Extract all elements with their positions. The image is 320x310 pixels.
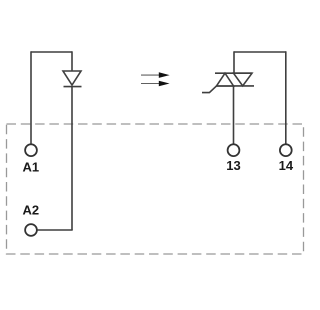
wire: input loop top horizontal <box>31 51 72 53</box>
svg-text:14: 14 <box>279 158 294 173</box>
wire: LED cathode lead down <box>71 87 73 230</box>
wire: triac upper lead <box>233 51 235 73</box>
triac output <box>202 73 254 92</box>
wire: triac lower lead to 13 <box>233 86 235 144</box>
module outline (dashed) <box>7 124 304 254</box>
optocoupler light arrow 1 <box>141 72 170 78</box>
svg-text:13: 13 <box>226 158 240 173</box>
terminal 13 <box>228 144 240 156</box>
svg-text:A1: A1 <box>23 160 40 175</box>
svg-text:A2: A2 <box>23 203 40 218</box>
wire: LED anode lead <box>71 51 73 71</box>
wire: output loop top horizontal <box>234 51 286 53</box>
terminal A2 <box>25 224 37 236</box>
LED diode (input) <box>63 71 82 87</box>
wire: A2 horizontal lead <box>37 229 72 231</box>
optocoupler light arrow 2 <box>141 81 170 87</box>
wire: 14 vertical lead <box>285 51 287 144</box>
terminal 14 <box>280 144 292 156</box>
terminal A1 <box>25 144 37 156</box>
wire: A1 vertical lead <box>30 51 32 144</box>
